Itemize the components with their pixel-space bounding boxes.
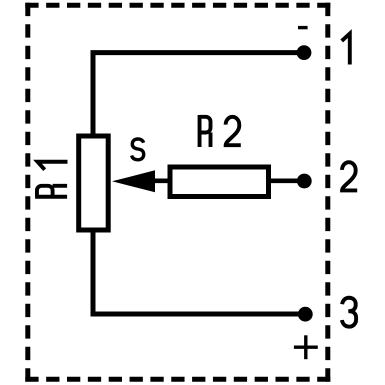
- pin number 2: [342, 162, 357, 190]
- terminal 3 dot: [298, 307, 313, 322]
- label R1: [35, 162, 67, 197]
- pin number 1: [342, 34, 350, 65]
- label s: [132, 139, 144, 160]
- resistor R2: [170, 167, 269, 197]
- enclosure dashed housing outline: [25, 3, 330, 382]
- wire: wiper to R2: [153, 179, 172, 184]
- polarity plus: [294, 335, 318, 359]
- potentiometer R1: [79, 136, 109, 230]
- polarity minus: [298, 26, 308, 29]
- wire: R1 bottom to terminal 3: [93, 230, 305, 314]
- label R2: [200, 115, 241, 147]
- wiper arrow s: [112, 170, 155, 192]
- wire: R2 to terminal 2: [269, 179, 305, 184]
- terminal 2 dot: [297, 174, 312, 189]
- terminal 1 dot: [297, 45, 312, 60]
- wire: R1 top to terminal 1: [93, 53, 304, 136]
- pin number 3: [342, 298, 356, 327]
